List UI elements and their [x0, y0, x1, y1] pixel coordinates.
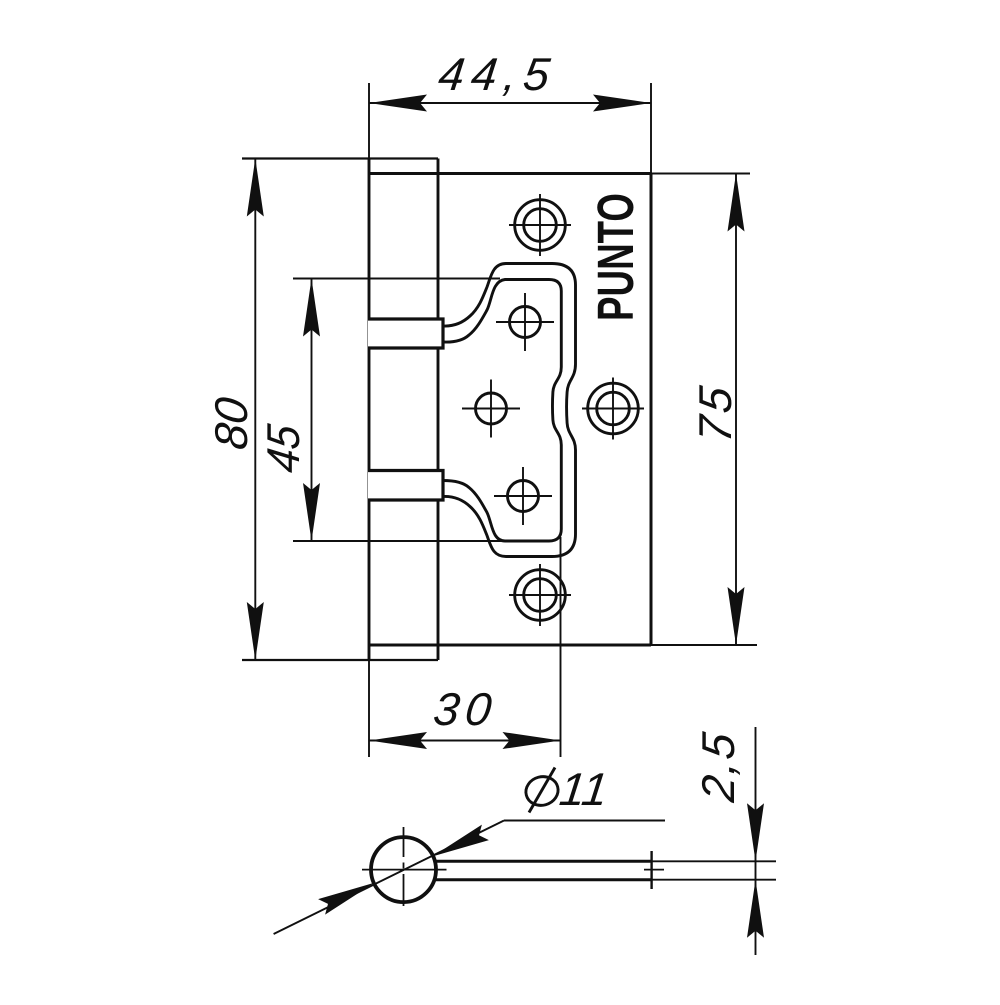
dimension 30 right extension: [560, 537, 562, 757]
hinge strip right edge: [437, 159, 440, 661]
dimension 45 top arrow: [303, 279, 320, 337]
strip bottom cap with 80-dim extension: [242, 659, 438, 661]
dimension 44,5 left extension: [368, 83, 370, 159]
strip top cap with 80-dim extension: [242, 157, 438, 159]
diameter leader arrow lower-left: [318, 883, 374, 915]
dimension 44,5 right extension: [650, 83, 652, 174]
side view barrel vertical centerline: [403, 827, 405, 906]
diameter leader arrow upper-right: [433, 825, 489, 857]
dimension 30 left arrow: [369, 732, 427, 749]
dimension 75 line: [735, 174, 737, 646]
screw hole top (countersunk): [515, 200, 566, 251]
dimension 44,5 right arrow: [593, 95, 651, 112]
side view barrel horizontal centerline: [362, 869, 447, 871]
side view leaf end edge: [650, 851, 652, 889]
svg-text:44,5: 44,5: [436, 48, 560, 100]
screw hole bottom (countersunk): [515, 570, 566, 621]
screw hole fourth (small): [508, 481, 539, 512]
diameter leader line slanted: [274, 821, 504, 935]
dimension 2,5 bottom extension: [652, 879, 776, 881]
side view barrel circle: [371, 837, 436, 902]
svg-text:11: 11: [557, 763, 611, 815]
dimension 2,5 top extension: [652, 860, 776, 862]
dimension 45 bottom arrow: [303, 483, 320, 541]
side view leaf end center dash: [644, 869, 664, 871]
stamped cutout outer outline: [443, 264, 576, 557]
dimension 44,5 left arrow: [369, 95, 427, 112]
dimension 80 top arrow: [247, 159, 264, 217]
plate bottom edge: [369, 644, 651, 647]
dimension 30 line: [369, 740, 561, 742]
screw hole middle-left (small): [476, 393, 507, 424]
dimension 75 top arrow: [728, 174, 745, 232]
dimension 2,5 upper arrow pointing down: [747, 803, 764, 861]
dimension 45 bottom extension: [293, 540, 505, 542]
svg-text:2,5: 2,5: [692, 728, 744, 805]
dimension 45 top extension: [293, 278, 500, 280]
svg-text:PUNTO: PUNTO: [587, 193, 644, 321]
dimension 2,5 line: [755, 727, 757, 955]
diameter leader line horizontal: [504, 820, 665, 822]
dimension 2,5 lower arrow pointing up: [747, 880, 764, 938]
side view leaf top face: [434, 860, 652, 863]
hinge strip (folded leaf) left edge: [368, 159, 371, 661]
knuckle band 2: [368, 471, 443, 501]
plate right edge: [650, 174, 653, 646]
diameter symbol: [523, 768, 562, 813]
svg-text:30: 30: [431, 683, 501, 735]
dimension 80 line: [254, 159, 256, 661]
dimension 75 bottom arrow: [728, 587, 745, 645]
svg-text:45: 45: [257, 422, 309, 476]
dimension 75 bottom extension: [651, 644, 757, 646]
dimension 75 top extension: [651, 173, 750, 175]
knuckle band 1: [368, 319, 443, 348]
svg-text:80: 80: [205, 394, 257, 452]
svg-text:75: 75: [689, 380, 741, 446]
dimension 30 left extension: [368, 660, 370, 757]
screw hole second (small): [510, 307, 541, 338]
side view leaf bottom face: [434, 878, 652, 881]
dimension 45 line: [311, 279, 313, 542]
dimension 80 bottom arrow: [247, 602, 264, 660]
dimension 44,5 line: [369, 102, 651, 104]
stamped cutout inner outline: [443, 280, 561, 542]
dimension 30 right arrow: [503, 732, 561, 749]
plate top edge: [369, 172, 651, 175]
screw hole right (countersunk): [588, 383, 639, 434]
